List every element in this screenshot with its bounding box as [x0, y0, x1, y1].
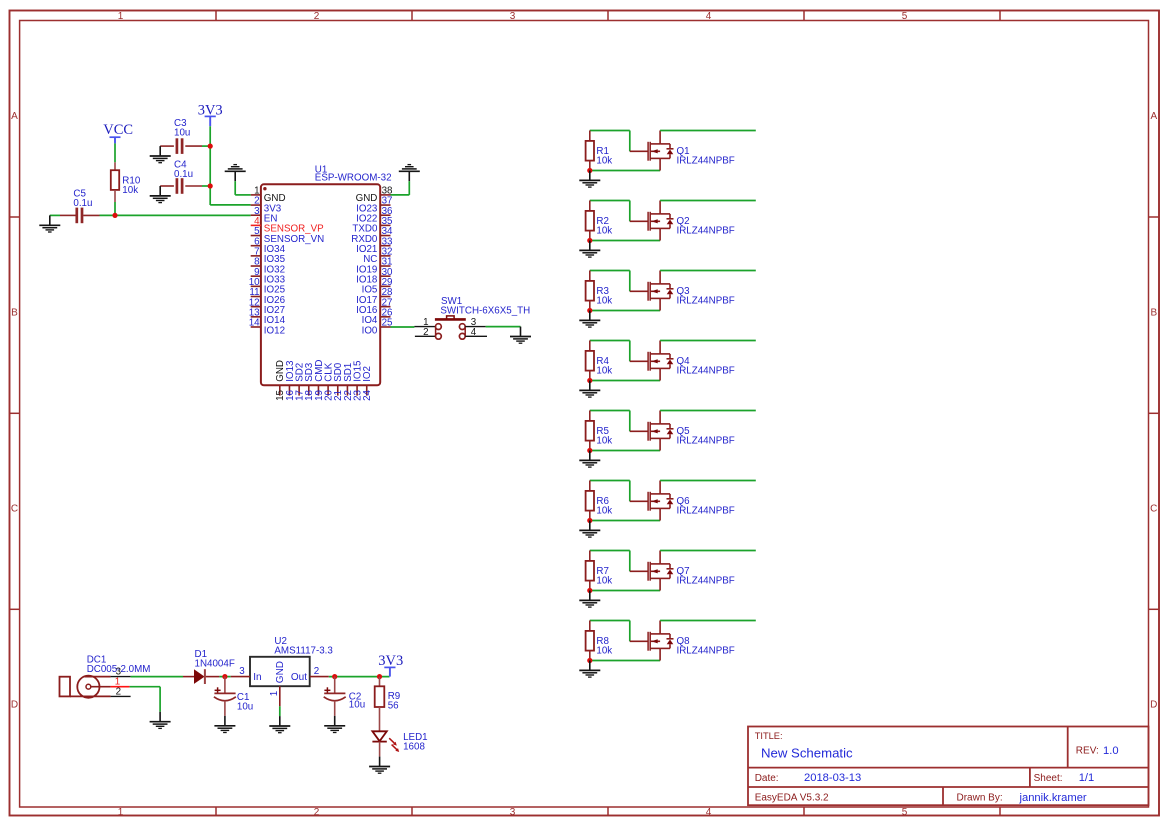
svg-text:ESP-WROOM-32: ESP-WROOM-32	[315, 173, 392, 184]
U1 pin 37 IO23	[356, 196, 392, 215]
ground below C1	[214, 716, 235, 733]
svg-text:D: D	[11, 700, 18, 711]
resistor R9 56	[375, 677, 401, 732]
ground below DC1	[150, 712, 171, 729]
U1 pin 33 IO21	[356, 236, 393, 255]
resistor R5 10k	[586, 411, 613, 451]
wire source net Q7	[590, 590, 660, 592]
svg-text:4: 4	[706, 807, 712, 818]
svg-text:0.1u: 0.1u	[73, 198, 92, 209]
svg-text:56: 56	[388, 700, 399, 711]
ground at R6	[579, 521, 600, 538]
svg-text:10u: 10u	[237, 702, 253, 713]
regulator U2 AMS1117-3.3	[231, 636, 334, 706]
LED LED1 1608	[372, 731, 427, 756]
transistor Q4 IRLZ44NPBF	[630, 341, 674, 381]
wire drain Q1	[660, 130, 756, 132]
U1 pin 26 IO4	[362, 307, 393, 326]
label Q7	[677, 566, 735, 587]
ground above U1 pin 1	[225, 165, 246, 182]
wire C5 left to ground	[50, 214, 60, 216]
U1 pin 4 SENSOR_VP	[251, 216, 324, 235]
wire drain Q7	[660, 550, 756, 552]
svg-text:SWITCH-6X6X5_TH: SWITCH-6X6X5_TH	[440, 306, 530, 317]
svg-text:14: 14	[249, 318, 260, 329]
svg-text:IRLZ44NPBF: IRLZ44NPBF	[677, 365, 735, 376]
U1 pin 1 GND	[251, 186, 286, 205]
resistor R7 10k	[586, 551, 613, 591]
frame column numbers top	[118, 11, 908, 22]
ground above U1 pin 38	[399, 165, 420, 182]
wire U2 GND to ground	[279, 706, 281, 716]
U1 pin 6 IO34	[251, 236, 286, 255]
U1 pin 34 RXD0	[351, 226, 393, 245]
net flag VCC	[103, 122, 133, 143]
svg-text:1: 1	[269, 691, 280, 696]
U1 pin 28 IO17	[356, 287, 393, 306]
wire source net Q1	[590, 170, 660, 172]
ground at R3	[579, 311, 600, 328]
connector DC1 DC005-2.0MM	[60, 654, 151, 697]
wire drain Q4	[660, 340, 756, 342]
transistor Q2 IRLZ44NPBF	[630, 201, 674, 241]
ground at R2	[579, 241, 600, 258]
wire D1 to U2 In	[219, 676, 230, 678]
svg-text:A: A	[1150, 111, 1157, 122]
U1 pin 22 SD1	[343, 363, 354, 401]
wire drain Q8	[660, 620, 756, 622]
svg-text:24: 24	[362, 389, 373, 400]
label Q5	[677, 426, 735, 447]
svg-text:AMS1117-3.3: AMS1117-3.3	[274, 646, 333, 657]
wire U2 Out to 3V3	[329, 676, 390, 678]
svg-text:1/1: 1/1	[1079, 772, 1095, 784]
wire source net Q3	[590, 310, 660, 312]
junction R1 ground	[587, 168, 592, 173]
svg-text:10k: 10k	[596, 645, 612, 656]
svg-text:IO0: IO0	[362, 325, 378, 336]
junction EN/R10/C5	[112, 213, 117, 218]
svg-text:New Schematic: New Schematic	[761, 745, 853, 760]
resistor R8 10k	[586, 621, 613, 661]
capacitor C1 10u polarized	[214, 677, 253, 716]
U1 pin 5 SENSOR_VN	[251, 226, 325, 245]
ground at C5	[39, 215, 60, 232]
resistor R6 10k	[586, 481, 613, 521]
capacitor C5 0.1u	[60, 189, 100, 224]
label Q1	[677, 146, 735, 167]
svg-text:A: A	[11, 111, 18, 122]
ground at SW1	[510, 327, 531, 344]
U1 pin 7 IO35	[251, 246, 286, 265]
U1 pin 30 IO18	[356, 267, 393, 286]
svg-text:D: D	[1150, 700, 1157, 711]
junction C1	[222, 674, 227, 679]
ground at R8	[579, 661, 600, 678]
svg-text:IRLZ44NPBF: IRLZ44NPBF	[677, 505, 735, 516]
transistor Q6 IRLZ44NPBF	[630, 481, 674, 521]
U1 pin 16 IO13	[285, 360, 296, 401]
junction R8 ground	[587, 658, 592, 663]
svg-text:3: 3	[239, 666, 245, 677]
svg-text:4: 4	[706, 11, 712, 22]
svg-text:10k: 10k	[596, 365, 612, 376]
U1 pin 9 IO33	[251, 267, 286, 286]
wire source net Q8	[590, 660, 660, 662]
svg-text:C: C	[11, 504, 18, 515]
svg-text:1N4004F: 1N4004F	[195, 658, 235, 669]
svg-text:EasyEDA V5.3.2: EasyEDA V5.3.2	[755, 792, 829, 803]
wire gate net Q2	[590, 201, 630, 222]
svg-text:0.1u: 0.1u	[174, 169, 193, 180]
U1 pin 24 IO2	[362, 366, 373, 401]
U1 pin 25 IO0	[362, 318, 393, 337]
capacitor C4 0.1u	[160, 160, 210, 194]
wire ground to pin 1	[235, 181, 251, 195]
transistor Q7 IRLZ44NPBF	[630, 551, 674, 591]
junction R6 ground	[587, 518, 592, 523]
wire R10 to EN net	[114, 202, 116, 215]
svg-text:10k: 10k	[122, 185, 138, 196]
U1 pin 29 IO5	[362, 277, 393, 296]
svg-text:B: B	[11, 308, 18, 319]
svg-text:IRLZ44NPBF: IRLZ44NPBF	[677, 645, 735, 656]
wire pin 38 to ground	[391, 181, 410, 195]
U1 pin 17 SD2	[295, 363, 306, 401]
ground at R5	[579, 451, 600, 468]
U1 pin 35 TXD0	[352, 216, 393, 235]
svg-text:IRLZ44NPBF: IRLZ44NPBF	[677, 155, 735, 166]
ground below U2	[269, 716, 290, 733]
wire drain Q5	[660, 410, 756, 412]
junction C4/3V3	[208, 183, 213, 188]
diode D1 1N4004F	[183, 649, 235, 684]
U1 pin 18 SD3	[304, 362, 315, 401]
U1 reference labels	[315, 165, 392, 184]
U1 pin 14 IO12	[249, 318, 285, 337]
ground at C4	[150, 186, 171, 203]
wire drain Q2	[660, 200, 756, 202]
transistor Q5 IRLZ44NPBF	[630, 411, 674, 451]
svg-text:VCC: VCC	[103, 122, 133, 138]
wire source net Q2	[590, 240, 660, 242]
svg-text:10k: 10k	[596, 575, 612, 586]
junction C2	[332, 674, 337, 679]
transistor Q1 IRLZ44NPBF	[630, 131, 674, 171]
title block	[748, 727, 1149, 806]
ground at C3	[150, 146, 171, 163]
label Q6	[677, 496, 735, 517]
wire gate net Q8	[590, 621, 630, 642]
U1 pin 10 IO25	[249, 277, 286, 296]
svg-text:IRLZ44NPBF: IRLZ44NPBF	[677, 435, 735, 446]
label Q8	[677, 636, 735, 657]
capacitor C2 10u polarized	[324, 677, 365, 716]
frame column numbers bottom	[118, 807, 908, 818]
resistor R4 10k	[586, 341, 613, 381]
label Q4	[677, 356, 735, 377]
svg-text:Date:: Date:	[755, 773, 779, 784]
wire gate net Q6	[590, 481, 630, 502]
ground at R1	[579, 171, 600, 188]
wire U1 IO0 to SW1	[391, 326, 415, 328]
resistor R1 10k	[586, 131, 613, 171]
U1 pin 27 IO16	[356, 297, 392, 316]
svg-text:4: 4	[471, 327, 477, 338]
junction R5 ground	[587, 448, 592, 453]
frame row letters right	[1150, 111, 1157, 711]
svg-text:3V3: 3V3	[378, 653, 403, 669]
U1 pin 8 IO32	[251, 257, 285, 276]
ground at R7	[579, 591, 600, 608]
net flag 3V3 top	[198, 102, 223, 126]
svg-text:IRLZ44NPBF: IRLZ44NPBF	[677, 295, 735, 306]
svg-text:C: C	[1150, 504, 1157, 515]
U1 pin 2 3V3	[251, 196, 282, 215]
title block texts	[755, 731, 1119, 804]
wire DC1 pin1 to ground	[130, 687, 161, 712]
svg-text:IO12: IO12	[264, 325, 285, 336]
U1 pin 15 GND	[275, 360, 286, 401]
U1 pin1 marker dot	[263, 187, 266, 190]
svg-text:3: 3	[510, 807, 516, 818]
wire SW1 pin 3 to ground	[486, 326, 521, 328]
svg-text:2: 2	[116, 686, 121, 697]
capacitor C3 10u	[160, 118, 210, 154]
svg-text:REV:: REV:	[1076, 746, 1099, 757]
svg-text:IRLZ44NPBF: IRLZ44NPBF	[677, 225, 735, 236]
U1 pin 21 SD0	[333, 362, 344, 401]
svg-text:10u: 10u	[174, 128, 190, 139]
svg-text:2: 2	[314, 807, 320, 818]
junction C3/3V3	[208, 144, 213, 149]
U1 pin 12 IO27	[249, 297, 285, 316]
svg-text:10k: 10k	[596, 435, 612, 446]
svg-text:IRLZ44NPBF: IRLZ44NPBF	[677, 575, 735, 586]
ground below C2	[324, 716, 345, 733]
wire VCC to R10	[114, 143, 116, 162]
wire source net Q5	[590, 450, 660, 452]
junction R7 ground	[587, 588, 592, 593]
wire EN net horizontal	[100, 214, 251, 216]
svg-text:B: B	[1150, 308, 1157, 319]
svg-text:10k: 10k	[596, 295, 612, 306]
wire source net Q4	[590, 380, 660, 382]
svg-text:10k: 10k	[596, 225, 612, 236]
svg-text:10k: 10k	[596, 505, 612, 516]
svg-text:1: 1	[118, 11, 124, 22]
wire gate net Q5	[590, 411, 630, 432]
svg-text:5: 5	[902, 11, 908, 22]
svg-text:GND: GND	[275, 661, 286, 683]
label Q3	[677, 286, 735, 307]
U1 pin 31 IO19	[356, 257, 392, 276]
wire drain Q6	[660, 480, 756, 482]
junction R4 ground	[587, 378, 592, 383]
junction R3 ground	[587, 308, 592, 313]
U1 pin 36 IO22	[356, 206, 393, 225]
wire source net Q6	[590, 520, 660, 522]
svg-text:2: 2	[314, 11, 320, 22]
ground at R4	[579, 381, 600, 398]
switch SW1 SWITCH-6X6X5_TH	[414, 296, 530, 339]
wire 3V3 vertical rail	[210, 126, 251, 205]
svg-text:2018-03-13: 2018-03-13	[804, 772, 861, 784]
U1 pin 20 CLK	[324, 362, 335, 401]
U1 pin 11 IO26	[249, 287, 285, 306]
svg-text:TITLE:: TITLE:	[755, 731, 783, 741]
svg-text:5: 5	[902, 807, 908, 818]
svg-text:1.0: 1.0	[1103, 745, 1119, 757]
svg-text:10u: 10u	[349, 700, 365, 711]
wire drain Q3	[660, 270, 756, 272]
resistor R10 10k	[111, 162, 141, 202]
svg-text:IO2: IO2	[362, 366, 373, 382]
U1 pin 38 GND	[356, 186, 393, 205]
svg-text:jannik.kramer: jannik.kramer	[1019, 792, 1087, 804]
svg-text:Sheet:: Sheet:	[1034, 773, 1063, 784]
svg-text:1: 1	[118, 807, 124, 818]
U1 pin 23 IO15	[352, 360, 363, 401]
svg-text:In: In	[253, 672, 261, 683]
wire gate net Q1	[590, 131, 630, 152]
junction R9	[377, 674, 382, 679]
svg-text:Drawn By:: Drawn By:	[957, 792, 1003, 803]
net flag 3V3 output	[378, 653, 403, 677]
wire gate net Q4	[590, 341, 630, 362]
svg-text:2: 2	[423, 327, 428, 338]
U1 pin 3 EN	[251, 206, 278, 225]
U1 pin 19 CMD	[314, 359, 325, 400]
label Q2	[677, 216, 735, 237]
junction R2 ground	[587, 238, 592, 243]
svg-text:Out: Out	[291, 672, 307, 683]
frame row letters left	[11, 111, 18, 711]
transistor Q3 IRLZ44NPBF	[630, 271, 674, 311]
svg-text:10k: 10k	[596, 155, 612, 166]
wire gate net Q7	[590, 551, 630, 572]
wire DC1 pin3 to D1	[131, 676, 183, 678]
U1 pin 13 IO14	[249, 307, 286, 326]
svg-text:1608: 1608	[403, 742, 425, 753]
wire gate net Q3	[590, 271, 630, 292]
U1 pin 32 NC	[363, 246, 392, 265]
op IC U1 ESP-WROOM-32 body	[261, 184, 380, 385]
ground below LED1	[369, 757, 390, 774]
resistor R3 10k	[586, 271, 613, 311]
svg-text:2: 2	[314, 666, 319, 677]
transistor Q8 IRLZ44NPBF	[630, 621, 674, 661]
resistor R2 10k	[586, 201, 613, 241]
svg-text:3: 3	[510, 11, 516, 22]
